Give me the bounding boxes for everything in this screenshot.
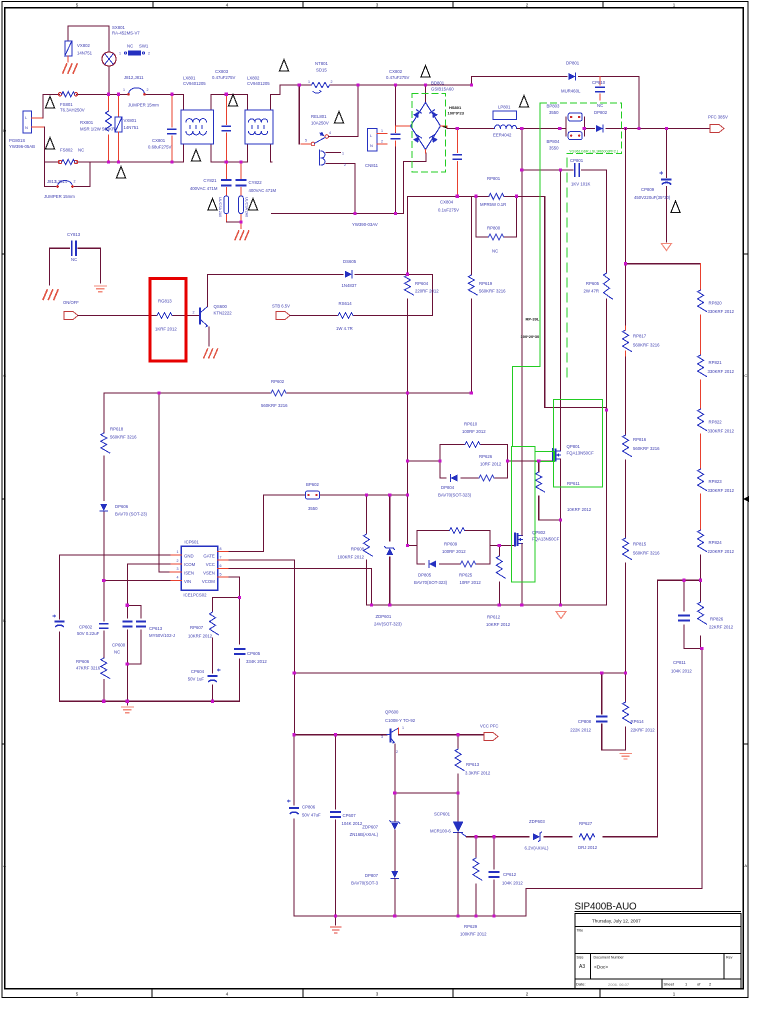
svg-text:MY50V/102-J: MY50V/102-J [149,633,175,638]
wire main PFC bus [447,128,710,130]
warning triangle [519,96,528,108]
svg-text:3: 3 [177,567,179,571]
junction [520,168,523,171]
svg-text:560KRF 3216: 560KRF 3216 [110,435,137,440]
capacitor CP801 row [522,164,607,176]
junction [107,93,110,96]
junction [520,603,523,606]
svg-text:DP801: DP801 [566,61,580,66]
junction [102,700,105,703]
capacitor CP808 [597,673,607,750]
svg-text:CP600: CP600 [112,643,126,648]
warning triangle [248,199,257,211]
svg-text:2: 2 [193,311,195,315]
resistor RX801 [106,94,112,162]
junction [293,671,296,674]
junction [600,671,603,674]
warning triangle [191,150,200,162]
svg-text:VCC PFC: VCC PFC [480,724,498,729]
green dashed vertical [566,158,568,377]
junction [474,195,477,198]
svg-text:VX801: VX801 [124,118,138,123]
junction [298,83,301,86]
svg-text:A: A [744,863,747,868]
junction [394,83,397,86]
svg-text:1: 1 [402,726,404,730]
svg-text:RA-452MS-V7: RA-452MS-V7 [112,31,140,36]
junction [370,603,373,606]
svg-text:KTN2222: KTN2222 [214,311,233,316]
svg-text:N: N [25,125,28,130]
svg-text:RP629: RP629 [464,924,478,929]
svg-text:CV9401205: CV9401205 [183,81,206,86]
svg-text:BP803: BP803 [547,104,561,109]
junction [126,700,129,703]
svg-text:GSIB15A60: GSIB15A60 [431,87,454,92]
junction [238,596,241,599]
wire lower loop output / QP802 gate [490,544,514,546]
diode DS605 [345,271,352,278]
junction [439,459,442,462]
resistor RP816 [623,435,632,538]
diode DP807 [391,871,398,916]
capacitor CP810 [596,77,604,101]
resistor RP602 [271,390,286,396]
frame zone ticks bottom [152,989,600,998]
svg-text:10KRF 2012: 10KRF 2012 [188,634,213,639]
junction [520,127,523,130]
junction [406,391,409,394]
svg-text:RX801: RX801 [80,120,94,125]
svg-text:5: 5 [305,139,307,143]
svg-text:22KRF 2012: 22KRF 2012 [631,728,656,733]
svg-text:CV9401205: CV9401205 [247,81,270,86]
svg-text:CP801: CP801 [570,158,584,163]
junction [334,733,337,736]
svg-text:A3: A3 [579,964,585,970]
svg-text:DP804: DP804 [441,485,455,490]
wire VSEN pin6 [229,569,372,606]
svg-text:ZN16B(AXIAL): ZN16B(AXIAL) [350,832,379,837]
warning triangle [45,97,54,109]
junction [107,160,110,163]
warning triangle [208,199,217,211]
svg-text:RP822: RP822 [709,420,723,425]
wire QP802 drain vertical [521,129,523,529]
junction [558,127,561,130]
resistor RP821 [698,355,707,409]
junction [225,93,228,96]
varistor VX801 [115,94,122,162]
svg-text:BAV70 (SOT-23): BAV70 (SOT-23) [115,512,147,517]
transformer LX801 [181,94,214,162]
junction [498,603,501,606]
svg-text:<Doc>: <Doc> [594,965,608,971]
svg-text:RP614: RP614 [631,719,645,724]
svg-text:RP625: RP625 [459,573,473,578]
warning triangle [116,167,125,179]
svg-text:2006. 06.07: 2006. 06.07 [608,982,630,987]
svg-text:CP602: CP602 [79,625,93,630]
svg-text:QP801: QP801 [567,444,581,449]
junction [637,127,640,130]
junction [170,160,173,163]
svg-text:1: 1 [308,80,310,84]
resistor RP611 [536,461,561,520]
warning triangle [334,112,343,124]
MOSFET QP801 [553,449,561,605]
wire lower loop input [408,544,417,546]
svg-text:Rev: Rev [726,956,733,960]
svg-text:2: 2 [396,750,398,754]
svg-text:RG813: RG813 [158,299,172,304]
resistor RP817 [623,264,632,435]
resistor RG814 [338,313,353,319]
jumper J813,J814 [44,162,90,188]
fusible resistor BP602 [306,491,320,499]
junction [456,127,459,130]
resistor RP629 [473,837,482,916]
junction [117,93,120,96]
junction [559,519,562,522]
diode DP801 with top wire [472,73,640,129]
svg-text:2: 2 [74,180,76,184]
green box gate [535,451,554,461]
junction [388,603,391,606]
svg-text:3550: 3550 [549,110,559,115]
svg-text:C: C [744,373,747,378]
jumper J812,J811 arc [127,88,146,96]
svg-text:BP804: BP804 [547,139,561,144]
signal ground below CP808 [620,754,631,760]
zener ZDP601 [385,495,395,605]
svg-text:DP802: DP802 [594,110,608,115]
junction [102,579,105,582]
junction [506,459,509,462]
svg-text:Title: Title [577,929,584,933]
junction [126,604,129,607]
junction [406,544,409,547]
relay coil REL801 [320,150,356,213]
wire top AC bus [280,84,472,86]
svg-text:UL/CSA 2A0: UL/CSA 2A0 [218,197,222,217]
arrow PFC 385V [710,125,724,133]
resistor RP627 [580,834,595,840]
svg-text:MPR5W 0.1R: MPR5W 0.1R [480,202,506,207]
junction [293,733,296,736]
junction [356,83,359,86]
svg-text:0.47uF275V: 0.47uF275V [212,75,236,80]
svg-text:SD15: SD15 [316,68,327,73]
resistor RP824 [698,530,707,580]
svg-text:SCP601: SCP601 [434,812,451,817]
junction [239,160,242,163]
capacitor CX802 [392,85,400,213]
svg-text:VIN: VIN [184,579,191,584]
junction [353,212,356,215]
junction [605,408,608,411]
svg-text:MSR 1/2W 560KR: MSR 1/2W 560KR [80,127,115,132]
resistor RP800 [476,196,517,240]
wire neutral run [272,153,426,214]
warning triangle [671,201,680,213]
svg-text:J812,J811: J812,J811 [124,75,144,80]
svg-text:CP612: CP612 [503,872,517,877]
wire AC bottom row [44,127,271,162]
chassis ground left of CY813 [43,290,58,299]
wire CY merge [226,221,241,223]
svg-text:1: 1 [123,88,125,92]
green dashed box around bridge [412,94,446,173]
svg-text:10KRF 2012: 10KRF 2012 [486,622,511,627]
svg-text:1KRF 2012: 1KRF 2012 [155,327,177,332]
svg-text:2: 2 [148,52,150,56]
resistor RP606 [101,658,110,701]
frame center markers [743,496,749,502]
svg-text:RP824: RP824 [709,540,723,545]
svg-text:104K 2012: 104K 2012 [502,881,523,886]
svg-text:PFC 385V: PFC 385V [708,115,728,120]
svg-text:330KRF 2012: 330KRF 2012 [708,309,735,314]
svg-text:UL/CSA 2A0: UL/CSA 2A0 [245,197,249,217]
svg-text:PG801S: PG801S [9,138,25,143]
svg-text:3550: 3550 [549,146,559,151]
svg-text:CP613: CP613 [149,626,163,631]
svg-text:0.1uF275V: 0.1uF275V [438,208,459,213]
svg-text:2: 2 [381,140,383,144]
varistor VX802 [65,41,72,62]
svg-text:560KRF 3216: 560KRF 3216 [633,551,660,556]
svg-text:CP808: CP808 [578,719,592,724]
svg-text:0.68uF275V: 0.68uF275V [148,145,172,150]
junction [334,914,337,917]
resistor RP613 [455,735,464,793]
svg-text:CP810: CP810 [592,80,606,85]
junction [699,579,702,582]
resistor RP823 [698,469,707,530]
resistor RP607 [210,598,240,669]
svg-text:NC: NC [127,44,133,49]
warning triangle [228,95,237,107]
frame zone ticks top [153,2,603,8]
svg-text:Document Number: Document Number [594,956,625,960]
capacitor CX801 [168,94,176,162]
svg-text:RP608: RP608 [351,547,365,552]
junction [126,662,129,665]
junction [456,195,459,198]
svg-text:LX802: LX802 [247,76,260,81]
svg-text:330KRF 2012: 330KRF 2012 [708,488,735,493]
svg-text:ICP601: ICP601 [184,540,199,545]
switch NC SW1 [124,51,144,56]
MOSFET QP802 [515,528,523,605]
svg-text:RP613: RP613 [466,762,480,767]
transformer LX802 [245,94,273,162]
svg-text:VX802: VX802 [77,43,91,48]
svg-text:560KRF 3216: 560KRF 3216 [479,289,506,294]
svg-text:CP605: CP605 [247,651,261,656]
svg-text:VSEN: VSEN [203,570,215,575]
svg-text:6.2V(AXIAL): 6.2V(AXIAL) [525,846,549,851]
svg-text:N: N [370,143,373,148]
svg-text:3.3KRF 2012: 3.3KRF 2012 [465,771,491,776]
svg-text:CX803: CX803 [215,69,229,74]
wire VCC pin7 [229,560,294,735]
transistor QP600 [387,728,402,793]
svg-text:QP802: QP802 [532,530,546,535]
junction [665,127,668,130]
svg-text:10RF 2012: 10RF 2012 [460,580,482,585]
junction [424,83,427,86]
svg-text:DP805: DP805 [418,573,432,578]
resistor RP619 vertical [468,196,477,393]
svg-text:220KRF 2012: 220KRF 2012 [708,549,735,554]
resistor RP609 loop [417,527,490,564]
svg-text:50V 47uF: 50V 47uF [302,813,321,818]
green box QP802 [512,446,536,582]
svg-text:A: A [3,863,6,868]
svg-text:MCR100-6: MCR100-6 [430,829,451,834]
resistor RP822 [698,409,707,469]
resistor RP605 vertical [604,170,613,410]
svg-text:RP607: RP607 [190,625,204,630]
svg-text:NC: NC [114,650,120,655]
svg-text:10A250V: 10A250V [311,121,329,126]
svg-text:RP800: RP800 [487,226,501,231]
svg-text:10KRF 2012: 10KRF 2012 [567,507,592,512]
svg-text:104K 2012: 104K 2012 [671,669,692,674]
svg-text:FQA13N50CF: FQA13N50CF [532,537,560,542]
diode DP804 and resistor RP626 loop bottom [440,475,507,482]
resistor RP618 chain vertical [101,393,110,501]
svg-text:NC: NC [492,249,498,254]
warning triangle [421,66,430,78]
spark gap SX801 [102,52,116,66]
capacitor CP809 polarized [660,129,671,243]
svg-text:2: 2 [147,88,149,92]
chassis ground below CY822 [235,231,249,240]
svg-text:CY822: CY822 [249,180,263,185]
diode DP802 [596,125,603,132]
capacitor CP613 pair [123,605,145,701]
svg-text:EER4042: EER4042 [493,133,512,138]
svg-text:RP604: RP604 [415,281,429,286]
svg-text:400VAC 471M: 400VAC 471M [190,186,218,191]
svg-text:CP809: CP809 [641,187,655,192]
svg-text:CP811: CP811 [673,660,686,665]
wire GND pin1 [60,554,171,556]
wire VCOM pin5 [60,577,240,701]
svg-text:RP627: RP627 [579,821,593,826]
wire QP801 drain vertical [560,170,562,451]
wire VIN pin4 [104,580,170,582]
fusible resistor BP803 / BP804 pair [566,113,584,140]
svg-text:T6.3AH250V: T6.3AH250V [60,108,85,113]
svg-text:DRJ 2012: DRJ 2012 [578,845,598,850]
resistor RP814 [602,673,632,750]
svg-text:RP605: RP605 [586,281,600,286]
capacitor CX804 [453,129,461,197]
svg-text:DP606: DP606 [115,504,129,509]
capacitor CP604 polarized [208,668,220,701]
wire GATE vertical [263,495,265,552]
svg-text:104K 2012: 104K 2012 [342,821,363,826]
svg-text:SW1: SW1 [139,44,149,49]
svg-text:RP618: RP618 [110,427,124,432]
wire ICOM pin2 [127,564,170,606]
power arrow down (CP809) [661,244,671,251]
wire CP810 RP826 block [526,580,702,916]
svg-text:CY813: CY813 [67,232,81,237]
svg-text:1: 1 [381,129,383,133]
capacitor CP806 polarized [288,735,299,916]
svg-text:560KRF 3216: 560KRF 3216 [261,403,288,408]
svg-text:CP604: CP604 [191,669,205,674]
svg-text:RS614: RS614 [339,301,353,306]
svg-text:RP619: RP619 [479,281,493,286]
junction [624,671,627,674]
svg-text:HS801: HS801 [449,105,462,110]
svg-text:560KRF 3216: 560KRF 3216 [633,343,660,348]
svg-text:Date:: Date: [576,982,586,987]
ground below CP607 [331,916,341,933]
junction [624,127,627,130]
junction [474,914,477,917]
svg-text:100*20*30: 100*20*30 [521,334,540,339]
svg-text:450V220uF(35*30): 450V220uF(35*30) [634,195,671,200]
svg-text:RP626: RP626 [479,454,493,459]
resistor RP612 [496,545,505,605]
junction [537,459,540,462]
svg-text:FQA13N50CF: FQA13N50CF [567,451,595,456]
svg-text:REL801: REL801 [311,114,327,119]
title block title row [575,953,741,955]
svg-text:0.47uF275V: 0.47uF275V [386,75,410,80]
svg-text:1W 4.7R: 1W 4.7R [336,326,353,331]
svg-text:NC: NC [71,257,77,262]
wire upper loop output / QP801 gate [507,460,552,462]
zener ZDP603 [533,832,542,841]
svg-text:CY821: CY821 [203,178,217,183]
capacitor CY822 [237,162,246,229]
svg-text:RP826: RP826 [710,617,724,622]
junction [559,168,562,171]
resistor RG813 [157,313,172,319]
svg-text:CX804: CX804 [440,200,454,205]
title block box [575,914,741,990]
wire LX802 to top bus [279,85,281,94]
svg-text:RP610: RP610 [464,422,478,427]
svg-text:330KRF 2012: 330KRF 2012 [708,369,735,374]
svg-text:GND: GND [184,553,194,558]
junction [457,792,460,795]
svg-text:RP602: RP602 [271,379,285,384]
svg-text:1: 1 [177,550,179,554]
svg-text:CX802: CX802 [389,69,403,74]
zener ZDP607 [390,793,400,871]
wire shunt row [408,195,545,197]
wire QP600 emitter row [395,792,458,794]
title block date/sheet row [661,979,663,989]
svg-text:100RF 2012: 100RF 2012 [442,549,466,554]
resistor RP826 [698,602,707,624]
svg-text:100KRF 2012: 100KRF 2012 [460,932,487,937]
wire STB row [290,315,433,317]
svg-text:QP600: QP600 [385,710,399,715]
title underline [575,911,742,913]
inductor LP801 [493,111,517,129]
svg-text:2: 2 [331,80,333,84]
